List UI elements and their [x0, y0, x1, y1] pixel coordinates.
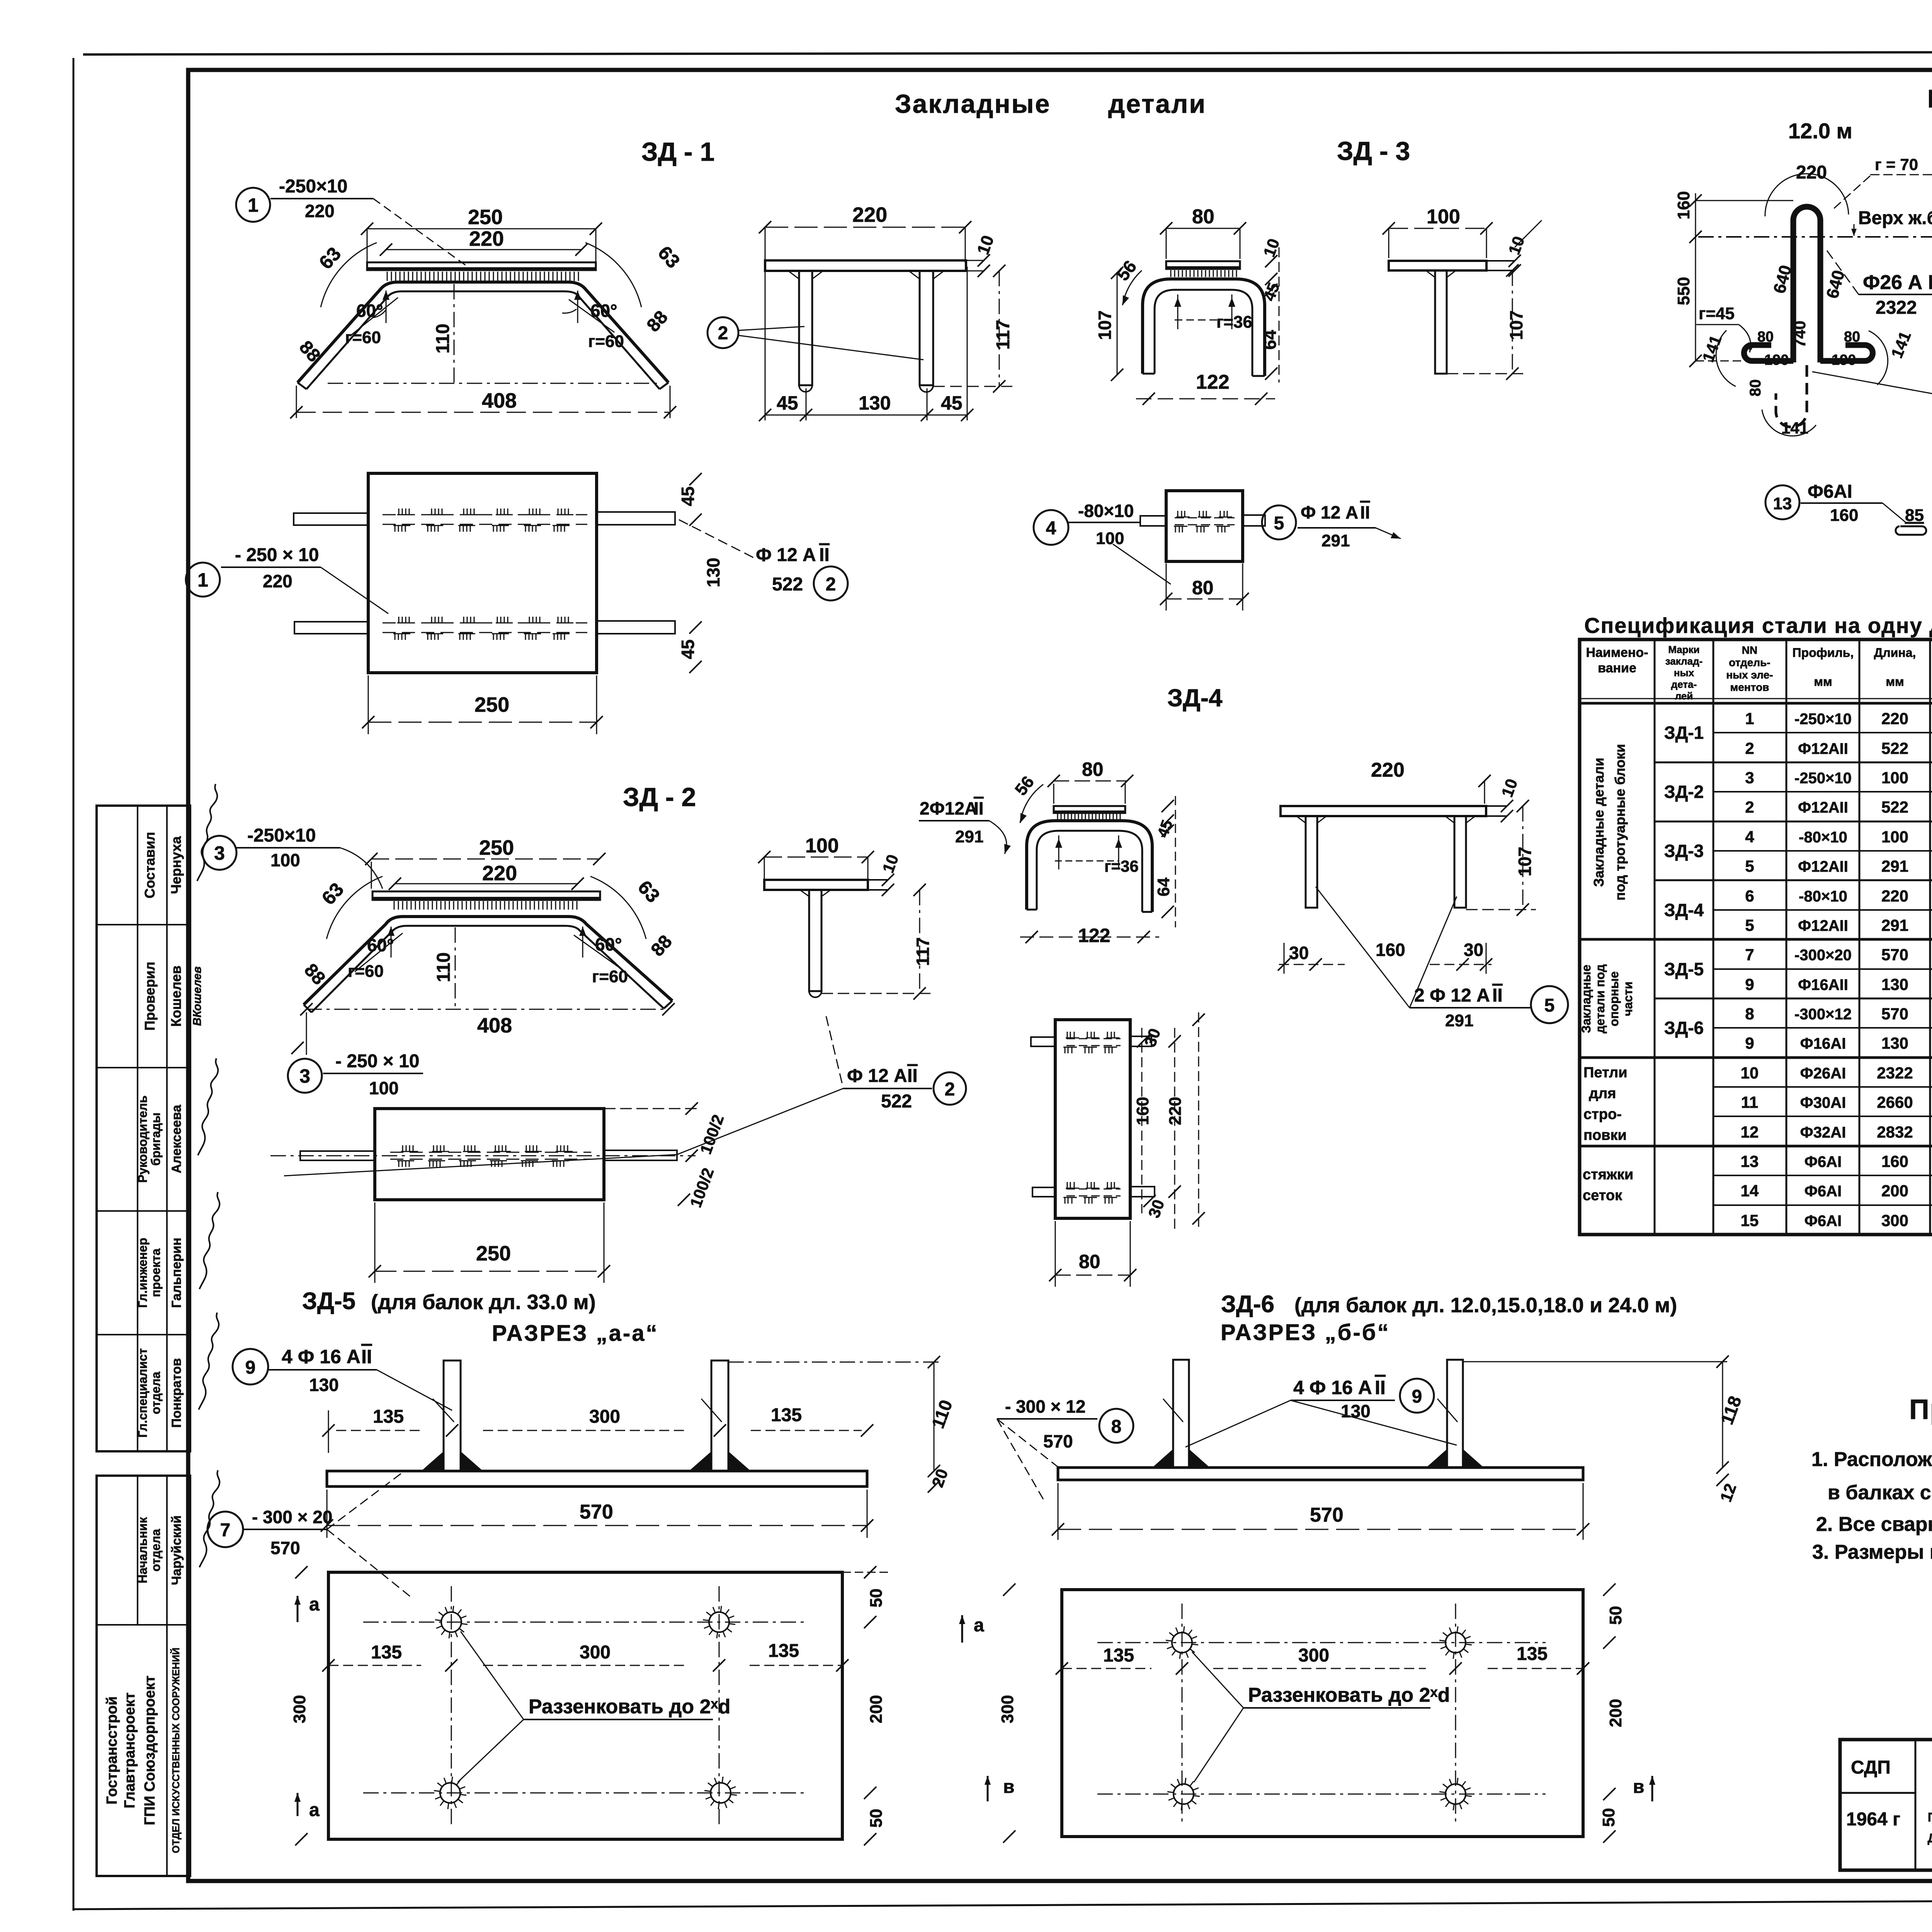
svg-text:160: 160: [1881, 1152, 1908, 1170]
note line 1: [1811, 1448, 1932, 1471]
svg-text:Раззенковать до 2ˣd: Раззенковать до 2ˣd: [1248, 1684, 1450, 1706]
detail ZD-1 plan: lower bar weld ticks: [393, 617, 573, 640]
svg-text:II: II: [1492, 985, 1503, 1006]
svg-text:ЗД - 2: ЗД - 2: [623, 782, 696, 812]
detail ZD-4: dim 122: [1020, 925, 1159, 946]
svg-text:а: а: [309, 1800, 320, 1820]
detail ZD-1 elevation: leg length 88 left: [295, 337, 324, 366]
detail ZD-4 plan: bars item 5: [1031, 1036, 1155, 1197]
svg-text:Спецификация стали на одну: Спецификация стали на одну деталь: [1584, 613, 1932, 638]
callout 9 (ZD-6): 4Ф16АII / 130: [1185, 1377, 1457, 1447]
svg-text:Ф6АI: Ф6АI: [1804, 1183, 1842, 1200]
svg-text:300: 300: [998, 1695, 1017, 1723]
svg-text:9: 9: [1745, 1034, 1754, 1052]
svg-text:Ф26 А I: Ф26 А I: [1863, 271, 1932, 294]
detail ZD-1 elevation: plate -250x10: [367, 262, 596, 270]
stamp row: Составил Чернуха: [142, 784, 217, 898]
svg-text:Марки: Марки: [1668, 644, 1699, 655]
svg-text:522: 522: [1881, 739, 1908, 757]
svg-text:130: 130: [859, 392, 891, 414]
loop 12.0m: left foot hook: [1744, 345, 1794, 361]
svg-text:(для балок дл. 33.0 м): (для балок дл. 33.0 м): [371, 1291, 596, 1314]
svg-text:50: 50: [867, 1809, 886, 1828]
svg-text:2: 2: [826, 574, 836, 595]
svg-text:5: 5: [1274, 513, 1284, 534]
svg-text:60°: 60°: [595, 934, 622, 954]
svg-text:Ф 12 А: Ф 12 А: [756, 545, 816, 565]
svg-text:200: 200: [1881, 1182, 1908, 1200]
svg-text:Алексеева: Алексеева: [169, 1104, 184, 1173]
svg-text:10: 10: [1741, 1064, 1759, 1082]
svg-text:Ф12АII: Ф12АII: [1798, 799, 1848, 816]
svg-text:повки: повки: [1583, 1127, 1627, 1143]
svg-text:135: 135: [768, 1641, 799, 1661]
svg-text:Кошелев: Кошелев: [168, 966, 184, 1027]
svg-text:г=60: г=60: [588, 332, 624, 351]
svg-text:Петли: Петли: [1927, 84, 1932, 113]
svg-text:2322: 2322: [1877, 1064, 1913, 1082]
svg-text:220: 220: [263, 571, 293, 591]
svg-text:160: 160: [1376, 940, 1405, 960]
svg-text:Главтрансроект: Главтрансроект: [122, 1692, 138, 1808]
svg-text:60°: 60°: [367, 935, 394, 955]
svg-text:Составил: Составил: [142, 832, 158, 898]
title block grid: [1840, 1740, 1932, 1870]
heading ЗД-3: [1337, 136, 1410, 166]
detail ZD-1 elevation: dim 110: [433, 284, 454, 383]
svg-text:2: 2: [945, 1079, 955, 1100]
svg-text:7: 7: [220, 1520, 231, 1541]
svg-text:220: 220: [852, 203, 887, 226]
svg-text:Начальник: Начальник: [136, 1517, 150, 1583]
heading ЗД-1: [641, 137, 714, 167]
callout 1: -250x10 / 220: [236, 176, 468, 267]
ZD-5 section: plate -300x20: [327, 1471, 867, 1486]
callout 2 (ZD-2): Ф12АII 522: [826, 1016, 966, 1112]
svg-text:8: 8: [1111, 1417, 1122, 1437]
svg-text:ЗД-2: ЗД-2: [1664, 782, 1704, 802]
loop 12.0m: dashed bent-down branch: [1776, 365, 1807, 427]
detail ZD-3: dim 107: [1095, 267, 1123, 381]
svg-text:160: 160: [1830, 506, 1858, 525]
callout 3 (plan): -250x10 / 100: [288, 1051, 423, 1098]
svg-text:300: 300: [1881, 1211, 1908, 1230]
ZD-6 plan: plate outline: [1062, 1590, 1583, 1837]
svg-text:80: 80: [1747, 379, 1764, 397]
svg-text:3: 3: [1745, 769, 1754, 787]
svg-text:Гл.специалист: Гл.специалист: [136, 1348, 150, 1437]
stamp row: Гл.инженер проекта Гальперин: [136, 1192, 219, 1308]
detail ZD-1 side view: dims 45 130 45: [759, 267, 973, 421]
svg-text:291: 291: [1881, 857, 1908, 875]
callout 4: -80x10 / 100: [1034, 501, 1171, 584]
svg-text:100: 100: [270, 850, 300, 870]
svg-text:опорные: опорные: [1607, 971, 1621, 1026]
svg-text:г=36: г=36: [1216, 313, 1252, 332]
svg-text:250: 250: [479, 836, 514, 859]
ZD-5 plan: side dims 50 200 50 300: [290, 1566, 889, 1845]
svg-text:Верх ж.б. плиты: Верх ж.б. плиты: [1858, 208, 1932, 228]
detail ZD-4 side view: plate 220: [1281, 800, 1513, 822]
svg-text:мм: мм: [1814, 675, 1832, 689]
ZD-5 section: anchor legs item 9: [433, 1361, 728, 1471]
svg-text:ПРОЛЕТНЫЕ СТРОЕНИЯ: ПРОЛЕТНЫЕ СТРОЕНИЯ: [1928, 1810, 1932, 1824]
ZD-6 plan: countersunk holes: [1166, 1626, 1472, 1810]
svg-text:в: в: [1633, 1777, 1645, 1797]
detail ZD-4 side view: dim 107: [1466, 800, 1536, 916]
svg-text:1: 1: [197, 569, 208, 591]
svg-text:-250×10: -250×10: [247, 825, 316, 846]
detail ZD-3 U-bar: weld seam: [1171, 270, 1236, 277]
callout 2 (side view legs): [707, 317, 923, 360]
svg-text:ЗД-6: ЗД-6: [1221, 1291, 1274, 1318]
svg-text:291: 291: [1445, 1011, 1473, 1030]
svg-text:отдель-: отдель-: [1729, 656, 1770, 668]
svg-text:дета-: дета-: [1671, 679, 1697, 690]
svg-text:8: 8: [1745, 1005, 1754, 1023]
detail ZD-2 elevation: dim 250: [365, 836, 605, 889]
heading ЗД-2: [623, 782, 696, 812]
title: Петли для строповки балок: [1927, 84, 1932, 113]
detail ZD-2 elevation: plate -250x10: [372, 891, 600, 900]
detail ZD-1 plan: upper bar item 2: [294, 512, 675, 525]
heading ZD-6: [1221, 1291, 1677, 1318]
svg-text:вание: вание: [1598, 661, 1636, 675]
loop 12.0m: callout Ф26АI 2322 item 10: [1825, 247, 1932, 318]
ZD-5 plan: centerlines: [363, 1586, 808, 1828]
svg-text:550: 550: [1674, 277, 1693, 305]
detail ZD-3 U-bar: plate -80x10: [1166, 261, 1240, 269]
detail ZD-4 plan: dim 80: [1049, 1221, 1136, 1287]
svg-text:45: 45: [678, 486, 698, 506]
ZD-5 section: dim 110 and 20: [728, 1356, 956, 1493]
detail ZD-2 elevation: dim 220: [389, 862, 584, 890]
detail ZD-2 side view: plate: [764, 852, 902, 896]
svg-text:детали: детали: [1108, 89, 1206, 119]
svg-text:Гл.инженер: Гл.инженер: [136, 1238, 150, 1308]
svg-text:80: 80: [1082, 759, 1104, 780]
svg-text:ГПИ Союздорпроект: ГПИ Союздорпроект: [142, 1675, 158, 1825]
svg-text:РАЗРЕЗ „а-а“: РАЗРЕЗ „а-а“: [492, 1321, 658, 1346]
svg-text:ментов: ментов: [1730, 681, 1769, 693]
svg-text:30: 30: [1464, 940, 1483, 960]
svg-text:г = 70: г = 70: [1875, 155, 1918, 173]
svg-text:Ф 12 А: Ф 12 А: [847, 1066, 907, 1086]
svg-text:-250×10: -250×10: [1794, 711, 1852, 728]
title block: project name: [1927, 1748, 1932, 1866]
svg-text:2660: 2660: [1877, 1093, 1913, 1111]
svg-text:- 250 × 10: - 250 × 10: [235, 545, 319, 565]
svg-text:200: 200: [867, 1695, 886, 1723]
svg-text:- 300 × 20: - 300 × 20: [252, 1507, 332, 1527]
stamp row: Проверил Кошелев: [142, 962, 204, 1031]
svg-text:3: 3: [214, 842, 225, 864]
svg-text:220: 220: [305, 201, 335, 221]
svg-text:ОТДЕЛ ИСКУССТВЕННЫХ СООРУЖЕНИЙ: ОТДЕЛ ИСКУССТВЕННЫХ СООРУЖЕНИЙ: [170, 1648, 182, 1853]
ZD-5 section: dim 570: [321, 1490, 873, 1538]
svg-text:ных эле-: ных эле-: [1726, 669, 1773, 681]
svg-text:100: 100: [369, 1078, 399, 1098]
svg-text:под тротуарные блоки: под тротуарные блоки: [1612, 744, 1628, 900]
svg-text:Ф 12 А: Ф 12 А: [1301, 502, 1358, 522]
detail ZD-4: right dims 43 64: [1154, 796, 1176, 927]
svg-text:13: 13: [1773, 494, 1792, 513]
svg-text:12: 12: [1741, 1123, 1759, 1141]
loop 12.0m: hairpin bar Ф26 item 10: [1793, 207, 1820, 362]
svg-text:2: 2: [1745, 739, 1754, 757]
svg-text:107: 107: [1095, 310, 1115, 340]
stamp row: Гл.специалист отдела Понкратов: [136, 1313, 219, 1438]
svg-text:II: II: [974, 798, 984, 818]
detail ZD-3: dim 56: [1112, 257, 1142, 305]
svg-text:стяжки: стяжки: [1583, 1167, 1633, 1183]
detail ZD-1 side view: dim 10: [973, 233, 998, 277]
heading РАЗРЕЗ б-б: [1221, 1320, 1390, 1345]
svg-text:Ф12АII: Ф12АII: [1798, 858, 1848, 875]
svg-text:570: 570: [580, 1501, 613, 1523]
svg-text:4: 4: [1046, 518, 1056, 539]
svg-text:30: 30: [1289, 943, 1309, 963]
svg-text:-80×10: -80×10: [1799, 888, 1847, 905]
tie item 13: Ф6АI 160 / 85: [1765, 481, 1926, 535]
note line 4: [1812, 1541, 1932, 1563]
detail ZD-3 plan: dim 80: [1160, 563, 1249, 611]
loop 12.0m: dims 640 640 740: [1770, 263, 1848, 348]
svg-text:для: для: [1589, 1085, 1616, 1102]
svg-text:570: 570: [1881, 1005, 1908, 1023]
detail ZD-2 elevation: arc 63 right: [590, 876, 664, 939]
svg-text:Руководитель: Руководитель: [136, 1095, 150, 1183]
svg-text:1: 1: [248, 194, 259, 216]
ZD-6 section: plate -300x12: [1058, 1468, 1583, 1480]
svg-text:Петли: Петли: [1583, 1065, 1628, 1081]
detail ZD-2 plan: dim 250: [369, 1202, 610, 1283]
detail ZD-1 side view: plate: [765, 260, 984, 271]
callout 3 (elevation): -250x10 / 100: [202, 825, 383, 889]
svg-text:Длина,: Длина,: [1874, 646, 1916, 660]
svg-text:Ф26АI: Ф26АI: [1800, 1065, 1846, 1082]
svg-text:-300×20: -300×20: [1794, 947, 1852, 964]
svg-text:ЗД-5: ЗД-5: [1664, 959, 1704, 979]
svg-text:100: 100: [1881, 769, 1908, 787]
detail ZD-1 elevation: dim 220: [380, 227, 588, 256]
ZD-5 section: dims 135 300 135: [322, 1405, 873, 1453]
svg-text:Проверил: Проверил: [142, 962, 158, 1031]
svg-text:570: 570: [1310, 1504, 1344, 1526]
svg-text:Гальперин: Гальперин: [169, 1238, 184, 1308]
svg-text:64: 64: [1260, 330, 1280, 350]
svg-text:Чаруйский: Чаруйский: [169, 1515, 184, 1585]
stamp row: Руководитель бригады Алексеева: [136, 1058, 218, 1183]
callout 2 (plan): Ф12АII 522: [679, 520, 848, 600]
detail ZD-4 U-bar item 5: [1027, 821, 1152, 912]
note line 3: [1816, 1513, 1932, 1536]
svg-text:ЗД - 3: ЗД - 3: [1337, 136, 1410, 166]
loop 12.0m: top reference line + dim 160: [1674, 191, 1793, 243]
svg-text:Профиль,: Профиль,: [1793, 646, 1854, 660]
svg-text:3. Размеры в мм.: 3. Размеры в мм.: [1812, 1541, 1932, 1563]
ZD-5 plan: plate outline: [328, 1572, 842, 1839]
svg-text:II: II: [1360, 502, 1370, 522]
detail ZD-4 side view: legs: [1296, 816, 1475, 908]
svg-text:1964 г: 1964 г: [1846, 1809, 1900, 1830]
note line 2: [1828, 1481, 1932, 1506]
svg-text:ЗД-6: ЗД-6: [1664, 1018, 1704, 1038]
detail ZD-2 plan: plate outline: [375, 1109, 604, 1200]
svg-text:130: 130: [1881, 1034, 1908, 1052]
title block: СДП / 1964: [1846, 1757, 1900, 1830]
svg-text:190: 190: [1764, 352, 1789, 368]
svg-text:части: части: [1621, 981, 1635, 1016]
svg-text:291: 291: [955, 827, 983, 846]
svg-text:408: 408: [482, 389, 517, 412]
detail ZD-1 plan: upper bar weld ticks: [393, 509, 573, 532]
ZD-5 plan: countersunk holes: [434, 1606, 737, 1809]
svg-text:408: 408: [477, 1014, 512, 1037]
svg-text:220: 220: [1796, 162, 1827, 183]
svg-text:1. Расположение закладных: 1. Расположение закладных деталей: [1811, 1448, 1932, 1471]
svg-text:2: 2: [1745, 798, 1754, 816]
svg-text:250: 250: [468, 206, 503, 229]
detail ZD-1 side view: dim 220: [759, 203, 971, 263]
svg-text:4 Ф 16 А: 4 Ф 16 А: [1293, 1377, 1372, 1398]
stamp row: Начальник отдела Чаруйский: [136, 1470, 219, 1585]
svg-text:Закладные: Закладные: [895, 89, 1051, 119]
svg-text:2322: 2322: [1876, 298, 1917, 318]
svg-text:II: II: [1375, 1377, 1386, 1398]
ZD-5 plan: section marks a-a: [294, 1594, 320, 1820]
svg-text:570: 570: [1043, 1431, 1073, 1451]
loop 12.0m: right foot hook: [1820, 345, 1873, 361]
detail ZD-4: dim 80: [1048, 759, 1133, 804]
svg-text:Понкратов: Понкратов: [169, 1358, 184, 1428]
svg-text:522: 522: [881, 1091, 912, 1112]
detail ZD-2 elevation: 60deg right: [574, 927, 628, 986]
svg-text:570: 570: [270, 1538, 300, 1558]
detail ZD-2 elevation: bent bar item 2: [304, 917, 672, 1012]
svg-text:110: 110: [433, 324, 453, 354]
svg-text:бригады: бригады: [149, 1112, 163, 1166]
detail ZD-2 side view: dim 117: [821, 884, 935, 1000]
svg-text:141: 141: [1781, 419, 1808, 437]
detail ZD-1 elevation: arc dim 63 left: [315, 243, 377, 307]
ZD-6 section: dim 570: [1052, 1483, 1589, 1540]
detail ZD-3 side view: dim 107: [1447, 264, 1526, 380]
detail ZD-4: dim 56: [1011, 772, 1043, 823]
svg-text:отдела: отдела: [149, 1372, 163, 1414]
svg-text:г=60: г=60: [345, 328, 381, 347]
table title: Спецификация стали на одну деталь: [1584, 613, 1932, 638]
svg-text:122: 122: [1078, 925, 1110, 946]
svg-text:Ф32АI: Ф32АI: [1800, 1124, 1846, 1141]
ZD-5 plan: dims 135 300 135: [322, 1641, 849, 1672]
svg-text:проекта: проекта: [149, 1248, 163, 1297]
svg-text:Наимено-: Наимено-: [1586, 645, 1648, 660]
svg-text:220: 220: [1881, 709, 1908, 728]
svg-text:ЗД-1: ЗД-1: [1664, 723, 1704, 743]
detail ZD-2 elevation: arc 63 left: [318, 876, 383, 939]
svg-text:5: 5: [1544, 995, 1555, 1016]
detail ZD-1 elevation: bent bar item 2: [298, 282, 668, 389]
svg-text:(для балок дл. 12.0,15.0,18.0: (для балок дл. 12.0,15.0,18.0 и 24.0 м): [1294, 1294, 1677, 1317]
svg-text:ЗД-3: ЗД-3: [1664, 841, 1704, 861]
detail ZD-3 side view: plate: [1389, 261, 1515, 270]
ZD-6 plan: dims 135 300 135: [1056, 1644, 1589, 1675]
svg-text:291: 291: [1321, 531, 1350, 550]
svg-text:Ф12АII: Ф12АII: [1798, 740, 1848, 757]
svg-text:NN: NN: [1742, 644, 1757, 656]
svg-text:5: 5: [1745, 916, 1754, 934]
heading РАЗРЕЗ а-а: [492, 1321, 658, 1346]
svg-text:ных: ных: [1674, 667, 1694, 679]
detail ZD-3 U-bar item 5: [1143, 279, 1265, 376]
svg-text:200: 200: [1606, 1699, 1625, 1727]
svg-text:135: 135: [1517, 1644, 1548, 1664]
svg-text:СДП: СДП: [1851, 1757, 1891, 1778]
detail ZD-1 plan: right dims 45 130 45: [678, 473, 723, 673]
detail ZD-1 elevation: baseline dash-dot: [328, 383, 661, 384]
detail ZD-2 side view: leg: [800, 890, 831, 997]
svg-text:80: 80: [1844, 329, 1860, 345]
svg-text:- 250 × 10: - 250 × 10: [335, 1051, 420, 1071]
svg-text:130: 130: [309, 1375, 339, 1395]
detail ZD-1 plan: lower bar item 2: [294, 621, 675, 634]
svg-text:2Ф12А: 2Ф12А: [920, 798, 977, 818]
svg-text:740: 740: [1791, 321, 1809, 348]
stamp column: lower block grid: [97, 1476, 190, 1876]
svg-text:300: 300: [1298, 1645, 1329, 1666]
detail ZD-1 elevation: weld seam hatch: [387, 272, 578, 281]
svg-text:4: 4: [1745, 828, 1754, 846]
callout 8: -300x12 / 570: [997, 1396, 1133, 1499]
svg-text:100: 100: [1881, 828, 1908, 846]
loop 12.0m: right foot arc 141: [1869, 329, 1915, 385]
title: Закладные детали: [895, 89, 1206, 119]
svg-text:117: 117: [993, 320, 1014, 350]
ZD-6 section: dim 118 and 12: [1463, 1355, 1745, 1504]
svg-text:г=36: г=36: [1104, 857, 1139, 875]
svg-text:80: 80: [1757, 329, 1774, 345]
svg-text:80: 80: [1192, 577, 1214, 599]
svg-text:300: 300: [589, 1406, 620, 1427]
svg-text:60°: 60°: [356, 301, 383, 321]
svg-text:Ф6АI: Ф6АI: [1808, 481, 1852, 502]
detail ZD-4 plan: weld ticks: [1063, 1032, 1119, 1204]
svg-text:15: 15: [1741, 1211, 1759, 1230]
svg-text:Раззенковать до 2ˣd: Раззенковать до 2ˣd: [529, 1696, 730, 1718]
detail ZD-2 plan: bar item 2: [270, 1150, 696, 1160]
svg-text:Ф6АI: Ф6АI: [1804, 1153, 1842, 1170]
svg-text:РАЗРЕЗ „б-б“: РАЗРЕЗ „б-б“: [1221, 1320, 1390, 1345]
stamp column: upper block grid: [97, 806, 190, 1451]
svg-text:-80×10: -80×10: [1078, 501, 1134, 521]
svg-text:45: 45: [678, 639, 698, 659]
detail ZD-3 plan: bar item 5 through plate: [1140, 515, 1265, 526]
svg-text:300: 300: [290, 1695, 309, 1723]
svg-text:107: 107: [1515, 847, 1535, 876]
svg-text:Ф6АI: Ф6АI: [1804, 1213, 1842, 1230]
stamp cell: organization: [104, 1648, 182, 1853]
svg-text:135: 135: [1103, 1645, 1134, 1666]
detail ZD-4 side view: dims 30 160 30: [1278, 940, 1492, 974]
svg-text:50: 50: [1606, 1606, 1625, 1625]
svg-text:а: а: [974, 1615, 984, 1636]
detail ZD-3 plan: plate outline: [1166, 491, 1243, 561]
callout 5: 2Ф12АII / 291: [1316, 887, 1568, 1030]
loop 12.0m: arc dim 220 + r=70: [1765, 155, 1932, 216]
svg-text:6: 6: [1745, 887, 1754, 905]
svg-text:291: 291: [1881, 916, 1908, 934]
